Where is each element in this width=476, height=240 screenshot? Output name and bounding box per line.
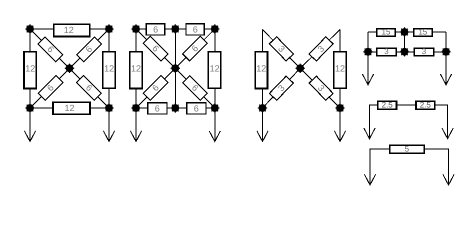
terminal arrow left C5 (364, 105, 375, 139)
terminal arrow right C4 (440, 52, 451, 85)
svg-text:5: 5 (405, 145, 410, 154)
resistor R right 2.5 ohm C5 (416, 101, 435, 110)
svg-text:3: 3 (384, 47, 389, 56)
svg-text:12: 12 (64, 25, 74, 35)
node bottom-right C2 (210, 103, 219, 112)
resistor R diag BR 6 ohm C1 (77, 75, 102, 100)
node top-middle C2 (171, 24, 180, 33)
wire right vertical C3 (339, 30, 341, 109)
wire right edge C2 (214, 29, 216, 108)
svg-text:2.5: 2.5 (382, 101, 394, 110)
wire left edge C2 (135, 29, 137, 108)
wire diagonal top-left C3 (263, 30, 301, 69)
svg-text:15: 15 (382, 28, 391, 37)
wire series loop C5 (370, 105, 448, 128)
wire diagonal TL-center C1 (30, 29, 70, 68)
resistor R diag BL 3 ohm C3 (269, 76, 293, 100)
svg-text:6: 6 (153, 24, 158, 34)
resistor R diag TL 3 ohm C3 (269, 37, 293, 61)
terminal arrow bottom-right C3 (334, 108, 345, 142)
resistor R diag BL 6 ohm C2 (143, 76, 168, 101)
node top-left C2 (131, 24, 140, 33)
resistor R diag TR 6 ohm C2 (183, 36, 208, 61)
svg-text:6: 6 (155, 103, 160, 113)
terminal arrow bottom-left C1 (24, 108, 35, 142)
svg-text:12: 12 (335, 63, 345, 73)
wire diagonal BL-center C1 (30, 68, 70, 108)
resistor R top-left 15 ohm C4 (377, 28, 396, 37)
wire bottom edge C1 (30, 107, 109, 109)
wire top edge C1 (30, 28, 109, 30)
svg-text:12: 12 (104, 63, 114, 73)
node top-left C1 (25, 24, 34, 33)
resistor R left 12 ohm C2 (130, 52, 142, 89)
node top-middle C4 (400, 27, 409, 36)
resistor R bottom 12 ohm C1 (53, 102, 90, 114)
resistor R diag TL 6 ohm C1 (38, 37, 63, 62)
svg-text:15: 15 (418, 28, 427, 37)
wire diagonal TR-center C1 (70, 29, 110, 68)
resistor R diag TR 6 ohm C1 (77, 37, 102, 62)
svg-text:12: 12 (25, 64, 35, 74)
node bottom-left C2 (131, 103, 140, 112)
resistor R top-right 6 ohm C2 (186, 24, 204, 35)
svg-text:12: 12 (210, 63, 220, 73)
node bottom-right C1 (104, 103, 113, 112)
resistor R equivalent 5 ohm C6 (390, 145, 425, 154)
wire diagonal BR-center C1 (70, 68, 110, 108)
wire center vertical C2 (174, 29, 176, 108)
terminal arrow bottom-right C1 (103, 108, 114, 142)
resistor R right 12 ohm C2 (208, 52, 221, 88)
wire right edge C1 (108, 29, 110, 108)
wire middle vertical C4 (404, 32, 406, 52)
node center C3 (296, 64, 305, 73)
wire left vertical C4 (367, 32, 369, 52)
node center C1 (65, 64, 74, 73)
node top-right C1 (104, 24, 113, 33)
resistor R top 12 ohm C1 (54, 24, 90, 36)
wire left vertical C3 (262, 30, 264, 109)
node bottom-left C3 (258, 103, 267, 112)
node bottom-left C1 (25, 103, 34, 112)
wire left edge C1 (29, 29, 31, 108)
terminal arrow bottom-left C2 (130, 108, 141, 142)
svg-text:6: 6 (193, 24, 198, 34)
wire top row C4 (368, 31, 446, 33)
resistor R left 12 ohm C1 (24, 52, 36, 89)
node center C2 (171, 64, 180, 73)
resistor R bottom-right 6 ohm C2 (187, 103, 206, 114)
svg-text:12: 12 (131, 64, 141, 74)
svg-text:3: 3 (422, 47, 427, 56)
wire diagonal BR-center C2 (175, 68, 215, 108)
resistor R top-left 6 ohm C2 (146, 24, 164, 35)
resistor R diag TR 3 ohm C3 (309, 37, 333, 61)
terminal arrow bottom-right C2 (209, 108, 220, 142)
node left C4 (363, 47, 372, 56)
resistor R diag BL 6 ohm C1 (38, 75, 63, 100)
terminal arrow right C5 (442, 105, 453, 139)
resistor R diag BR 6 ohm C2 (183, 76, 208, 101)
wire diagonal TL-center C2 (136, 29, 175, 68)
resistor R right 12 ohm C3 (334, 52, 347, 89)
wire right vertical C4 (445, 32, 447, 52)
wire diagonal top-right C3 (300, 30, 340, 69)
svg-text:2.5: 2.5 (420, 101, 432, 110)
wire diagonal bottom-left C3 (263, 68, 301, 108)
resistor R bottom-left 6 ohm C2 (148, 103, 167, 114)
wire top edge C2 (136, 28, 215, 30)
node right C4 (441, 47, 450, 56)
resistor R top-right 15 ohm C4 (414, 28, 433, 37)
node bottom-right C3 (335, 103, 344, 112)
resistor R left 12 ohm C3 (255, 52, 267, 89)
svg-text:12: 12 (64, 103, 74, 113)
resistor R right 12 ohm C1 (103, 52, 115, 89)
terminal arrow left C4 (362, 52, 373, 85)
wire diagonal bottom-right C3 (300, 68, 340, 108)
node bottom-middle C2 (171, 103, 180, 112)
resistor R bottom-left 3 ohm C4 (377, 47, 397, 56)
svg-text:6: 6 (194, 103, 199, 113)
terminal arrow bottom-left C3 (257, 108, 268, 142)
wire bottom edge C2 (136, 107, 215, 109)
node top-right C2 (210, 24, 219, 33)
resistor R diag BR 3 ohm C3 (309, 76, 333, 100)
wire diagonal BL-center C2 (136, 68, 175, 108)
node middle C4 (400, 47, 409, 56)
terminal arrow right C6 (443, 149, 454, 185)
terminal arrow left C6 (364, 149, 375, 185)
resistor R left 2.5 ohm C5 (378, 101, 397, 110)
resistor R bottom-right 3 ohm C4 (414, 47, 434, 56)
resistor R diag TL 6 ohm C2 (143, 36, 168, 61)
wire series loop C6 (370, 149, 449, 174)
wire diagonal TR-center C2 (175, 29, 215, 68)
svg-text:12: 12 (256, 64, 266, 74)
wire bottom row C4 (368, 51, 446, 53)
